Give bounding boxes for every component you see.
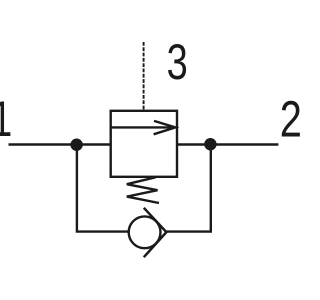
svg-text:3: 3 xyxy=(167,35,188,90)
check valve seat (V) xyxy=(144,208,167,257)
wire: bypass right (check valve up to junction) xyxy=(166,149,210,232)
svg-text:2: 2 xyxy=(280,91,300,148)
flow arrow inside valve body xyxy=(111,121,175,134)
junction dot left xyxy=(70,139,82,151)
wire: main line right (valve body to port 2) xyxy=(177,143,278,145)
spring xyxy=(127,177,159,203)
junction dot right xyxy=(204,138,216,150)
port label 3 xyxy=(167,35,188,90)
port label 1 xyxy=(0,92,12,147)
port label 2 xyxy=(280,91,302,148)
wire: main line left (port 1 to valve body) xyxy=(9,143,112,145)
valve body (square) xyxy=(111,111,177,177)
svg-text:1: 1 xyxy=(0,92,12,147)
wire: bypass left (junction down and to check valve) xyxy=(77,149,129,232)
pilot line (dashed, port 3) xyxy=(143,42,145,111)
check valve circle xyxy=(129,216,161,248)
